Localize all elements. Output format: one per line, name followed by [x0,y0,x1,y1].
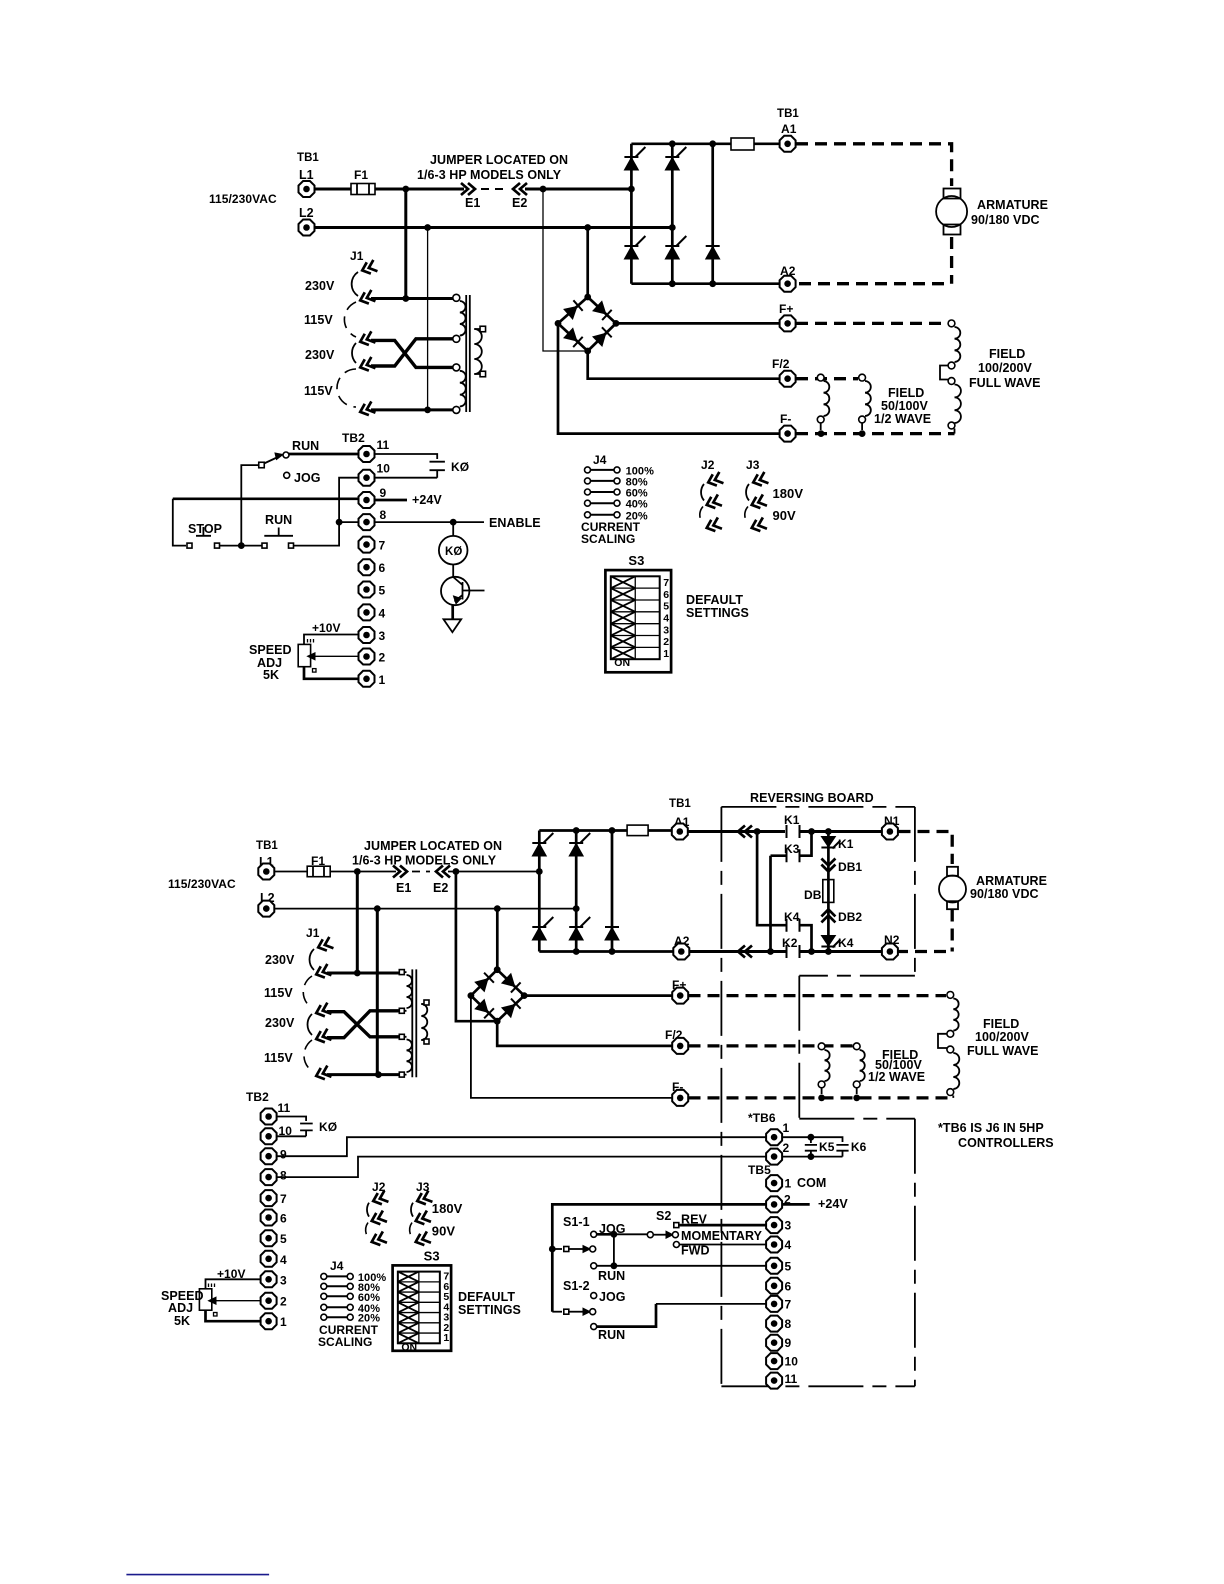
svg-text:K5: K5 [819,1140,835,1154]
terminal TB2-10 [359,470,375,486]
svg-text:S2: S2 [656,1209,671,1223]
terminal A1 [780,136,796,152]
SCR K4 (DB chain) [821,936,840,948]
terminal TB5-1 [766,1175,782,1191]
wire pot to TB2-3 [304,635,358,645]
terminal TB5-11 [766,1373,782,1389]
terminal TB2-5 (bottom) [261,1230,277,1246]
terminal TB2-2 [359,649,375,665]
wire L2 drop to field bridge top (bottom) [496,909,499,970]
transformer T1 core [466,295,470,412]
transformer T1 primary winding lower [460,371,466,407]
wire TB6-1 to contacts [783,1137,843,1142]
svg-text:7: 7 [663,577,669,589]
svg-text:1/6-3 HP MODELS ONLY: 1/6-3 HP MODELS ONLY [417,168,562,182]
svg-text:11: 11 [278,1101,291,1115]
wire pot to TB2-3 (bottom) [206,1279,261,1289]
armature fuse [731,138,754,150]
wire TB6-2 to contacts [783,1156,843,1158]
field diode top-right (bottom) [502,973,521,992]
J1 tap chevron 3 [358,331,375,347]
svg-text:A1: A1 [781,122,797,136]
field 100/200V coil upper [948,320,955,327]
jumper terminal E2 [513,183,527,195]
wire diamond to F/2 (bottom) [497,1021,672,1046]
wire F1 to E1 [375,188,464,191]
transformer secondary winding (bottom) [421,1004,427,1040]
svg-text:7: 7 [379,539,386,553]
wire S1-2 RUN to TB5-7 [597,1304,656,1327]
wire L2 node drop to field bridge top [586,228,589,298]
svg-text:E1: E1 [396,881,411,895]
svg-text:F/2: F/2 [772,357,790,371]
terminal TB2-3 (bottom) [261,1271,277,1287]
terminal TB2-9 [359,492,375,508]
svg-text:6: 6 [280,1212,287,1226]
svg-text:3: 3 [785,1219,792,1233]
wire F/2 to half-wave coils (bottom, dashed) [689,1044,854,1047]
wire tap5 to primary bottom [371,408,453,411]
svg-text:4: 4 [663,612,669,624]
wire selector pole drop [241,465,258,545]
wire left rail [173,499,186,546]
wire K1 node drop to K4 [757,832,786,926]
svg-text:J4: J4 [330,1259,344,1273]
S1-2 pole [552,1311,562,1313]
wire tap3 crossover (bottom) [327,1012,399,1037]
wire armature to A2 (dashed) [796,237,952,284]
terminal TB5-10 [766,1353,782,1369]
wire pot bottom to TB2-1 (bottom) [206,1310,261,1321]
contact K5 [805,1137,817,1156]
transformer primary winding upper (bottom) [407,975,413,1008]
wire JOG node to RUN node [613,1234,615,1266]
svg-text:ON: ON [401,1341,417,1353]
svg-text:2: 2 [783,1141,790,1155]
svg-text:100/200V: 100/200V [975,1030,1030,1044]
svg-text:230V: 230V [305,279,335,293]
field diode top-left (bottom) [475,973,494,992]
svg-text:SPEED: SPEED [249,643,292,657]
SCR top-mid [665,147,686,170]
JOG contact [284,472,290,478]
svg-text:9: 9 [785,1336,792,1350]
svg-text:2: 2 [280,1295,287,1309]
svg-text:2: 2 [379,651,386,665]
J1 tap chevron 230V top [360,260,377,276]
svg-text:K4: K4 [838,936,854,950]
wire L1 drop to transformer [404,189,407,298]
svg-text:FIELD: FIELD [888,386,924,400]
transformer T1 primary terminals [453,294,460,301]
wire diamond to F+ [616,322,779,325]
svg-text:ENABLE: ENABLE [489,516,541,530]
svg-text:115/230VAC: 115/230VAC [168,877,236,891]
svg-text:40%: 40% [626,499,648,511]
contact K0 (bottom) [277,1124,313,1137]
svg-text:1/6-3 HP MODELS ONLY: 1/6-3 HP MODELS ONLY [352,854,497,868]
SCR top-left (bottom) [532,833,553,856]
svg-text:90/180 VDC: 90/180 VDC [970,887,1039,901]
svg-text:90V: 90V [773,508,797,523]
svg-text:7: 7 [785,1297,792,1311]
J1 tap chevron 1 (bottom) [316,937,333,953]
jumper terminal E1 [461,183,475,195]
wire TB2-11 to K0 contact [375,454,437,459]
wire F+ to field coil (dashed) [796,322,947,325]
wire +24V from TB2-9 [375,499,407,502]
svg-text:J2: J2 [701,458,715,472]
J4 jumper 20% [590,514,614,516]
contact K6 [836,1145,848,1157]
svg-text:ADJ: ADJ [168,1301,193,1315]
field 50/100V coil left (bottom) [818,1043,825,1050]
svg-text:KØ: KØ [319,1120,337,1134]
svg-text:+10V: +10V [312,621,341,635]
relay coil K0 [452,522,454,536]
svg-text:230V: 230V [265,953,295,967]
svg-text:E2: E2 [433,881,448,895]
transformer T1 secondary winding [474,329,482,374]
terminal TB2-6 [359,559,375,575]
svg-text:11: 11 [377,438,390,452]
potentiometer SPEED ADJ 5K (bottom) [199,1289,211,1310]
J1 arc 230V [352,272,358,296]
terminal TB5-7 [766,1296,782,1312]
wire tap2 to primary top [371,297,453,300]
svg-text:1: 1 [379,673,386,687]
svg-text:TB1: TB1 [297,152,319,164]
pot wiper wire to TB2-2 [313,655,358,657]
wire F- return (bottom, dashed) [689,1096,954,1099]
wire L2 drop to transformer bottom [427,228,429,410]
wire F/2 to half-wave coils (dashed) [796,377,858,380]
svg-text:230V: 230V [305,348,335,362]
wire L2 to bridge (bottom) [275,908,576,910]
diode DB1 [821,859,835,872]
terminal TB2-9 (bottom) [261,1148,277,1164]
svg-text:F-: F- [780,412,791,426]
terminal TB5-5 [766,1258,782,1274]
jumper terminal E1 (bottom) [393,866,407,878]
svg-text:7: 7 [280,1192,287,1206]
svg-text:S3: S3 [628,553,644,568]
svg-text:50/100V: 50/100V [881,399,929,413]
wire STOP to RUN button [220,545,263,547]
wire tap3 crossover to primary t3 [371,340,453,367]
svg-text:DEFAULT: DEFAULT [686,593,743,607]
svg-text:115/230VAC: 115/230VAC [209,192,277,206]
wire armature to N2 (dashed) [899,910,953,952]
svg-text:1: 1 [280,1315,287,1329]
svg-text:1: 1 [783,1121,790,1135]
svg-text:5: 5 [280,1232,287,1246]
svg-text:CONTROLLERS: CONTROLLERS [958,1136,1054,1150]
jumper wire E1-E2 dashed (bottom) [412,871,430,873]
svg-text:FWD: FWD [681,1244,710,1258]
J4 jumper 80% (bottom) [327,1285,347,1287]
field 100/200V coil upper (bottom) [947,992,954,999]
SCR bottom-left [624,236,645,259]
transformer T1 primary winding upper [460,301,466,336]
diode bottom-right (bottom) [605,927,619,940]
J4 jumper 100% [590,469,614,471]
svg-text:1/2 WAVE: 1/2 WAVE [868,1070,925,1084]
wire L1 drop to transformer (bottom) [356,872,359,974]
field 50/100V coil right (bottom) [853,1043,860,1050]
svg-text:K1: K1 [784,813,800,827]
svg-text:3: 3 [280,1273,287,1287]
diode DB2 [821,909,835,922]
svg-text:115V: 115V [264,986,293,1000]
svg-text:STOP: STOP [188,522,222,536]
transformer primary winding lower (bottom) [407,1040,412,1073]
svg-text:SETTINGS: SETTINGS [458,1303,521,1317]
terminal TB5-8 [766,1316,782,1332]
SCR bottom-mid (bottom) [569,917,590,940]
S1-1 RUN contact [591,1263,597,1269]
svg-text:K6: K6 [851,1140,867,1154]
terminal TB2-10 (bottom) [261,1128,277,1144]
field diode bottom-right (bottom) [502,999,521,1018]
svg-text:+24V: +24V [412,493,442,507]
svg-text:S1-1: S1-1 [563,1215,590,1229]
SCR top-mid (bottom) [569,833,590,856]
wire E2 to bridge (bottom) [448,871,539,873]
wire FWD to TB5-4 [680,1244,767,1246]
terminal TB2-7 [359,537,375,553]
wire E2 drop to field bridge (bottom) [456,872,497,1022]
transistor Q1 [452,565,454,578]
wire TB2-11 to K0 contact (bottom) [277,1117,306,1122]
svg-text:115V: 115V [304,384,333,398]
svg-text:FULL WAVE: FULL WAVE [969,376,1041,390]
svg-text:100/200V: 100/200V [978,361,1033,375]
svg-text:TB2: TB2 [246,1090,269,1104]
svg-text:6: 6 [379,561,386,575]
svg-text:10: 10 [785,1355,799,1369]
J4 jumper 20% (bottom) [327,1316,347,1318]
svg-text:JOG: JOG [294,471,321,485]
wire tap4 crossover (bottom) [327,1011,399,1038]
terminal TB2-6 (bottom) [261,1210,277,1226]
svg-text:5K: 5K [174,1314,190,1328]
svg-text:TB1: TB1 [669,798,691,810]
wire A1 into board [689,830,786,833]
svg-text:4: 4 [379,606,386,620]
field bridge diode bottom-left [564,328,583,347]
wire left rail to TB2-9 [173,497,358,500]
jumper wire E1-E2 (dashed) [481,188,509,190]
J1 tap chevron 5 (bottom) [314,1066,331,1082]
svg-text:*TB6: *TB6 [748,1111,776,1125]
terminal TB5-2 [766,1196,782,1212]
svg-text:J1: J1 [306,926,320,940]
wire TB2-9 to TB6-1 [277,1137,766,1156]
wire F1 to E1 (bottom) [330,871,396,873]
wire tap4 crossover to primary t2 [371,339,453,366]
svg-text:11: 11 [785,1372,798,1386]
svg-text:E1: E1 [465,196,480,210]
potentiometer SPEED ADJ 5K [298,644,310,666]
svg-text:60%: 60% [626,488,648,500]
wire REV to TB5-3 [679,1224,766,1227]
wire RUN button to TB2-10 riser [294,478,359,546]
S1-1 JOG contact [591,1231,597,1237]
field coil tap jog (bottom) [938,1034,947,1048]
wire L1 to fuse F1 [315,188,351,191]
svg-text:9: 9 [280,1148,287,1162]
svg-text:K1: K1 [838,837,854,851]
armature fuse (bottom) [627,825,648,836]
terminal TB2-8 (bottom) [261,1169,277,1185]
J1 tap chevron 5 [358,401,375,417]
svg-text:TB2: TB2 [342,431,365,445]
svg-text:FULL WAVE: FULL WAVE [967,1044,1039,1058]
svg-text:F+: F+ [779,302,793,316]
wire tap5 to primary (bottom) [327,1073,399,1076]
wire K3 drop to N2 rail [769,856,772,952]
J4 jumper 40% [590,502,614,504]
field bridge diode top-right [593,301,612,320]
transformer core (bottom) [412,969,416,1077]
wire S1-1 JOG to S2 [597,1233,614,1236]
terminal TB2-4 [359,604,375,620]
svg-text:RUN: RUN [265,513,292,527]
svg-text:*TB6 IS J6 IN 5HP: *TB6 IS J6 IN 5HP [938,1121,1044,1135]
wire fuse to A1 [754,142,779,145]
svg-text:5: 5 [663,601,669,613]
terminal A1 (bottom) [672,824,688,840]
jumper terminal E2 (bottom) [436,866,450,878]
J4 jumper 100% (bottom) [327,1275,347,1277]
wire E2 node drop to field bridge [543,189,588,351]
terminal TB5-9 [766,1335,782,1351]
wire diamond to F/2 [588,351,779,379]
terminal TB2-2 (bottom) [261,1293,277,1309]
field 50/100V coil left [817,374,824,381]
S2 REV contact [674,1223,679,1228]
svg-text:K2: K2 [782,936,798,950]
transformer primary terminals (bottom) [399,970,404,975]
svg-text:180V: 180V [773,486,804,501]
J1 arc 115V lower (dashed) [337,369,356,407]
terminal TB2-8 [359,514,375,530]
wire transistor to ground [451,605,454,620]
svg-text:KØ: KØ [451,460,469,474]
svg-text:DEFAULT: DEFAULT [458,1290,515,1304]
svg-text:J3: J3 [746,458,760,472]
terminal TB5-6 [766,1278,782,1294]
svg-text:FIELD: FIELD [989,347,1025,361]
svg-text:ON: ON [614,657,630,669]
wire K1 to N1 [800,830,882,833]
svg-text:3: 3 [663,624,669,636]
svg-text:L2: L2 [299,206,314,220]
svg-text:8: 8 [380,508,387,522]
svg-text:6: 6 [785,1279,792,1293]
svg-text:REVERSING BOARD: REVERSING BOARD [750,791,874,805]
pot wiper to TB2-2 (bottom) [214,1300,260,1302]
wire S1-1 RUN to TB5-5 [597,1265,766,1267]
J1 tap chevron 4 [358,357,375,373]
svg-text:MOMENTARY: MOMENTARY [681,1229,763,1243]
armature bridge rails [631,144,787,284]
S1-2 RUN contact [591,1324,597,1330]
svg-text:10: 10 [377,462,391,476]
svg-text:5: 5 [379,584,386,598]
terminal TB2-7 (bottom) [261,1190,277,1206]
svg-text:+24V: +24V [818,1197,848,1211]
svg-text:SCALING: SCALING [318,1335,372,1349]
svg-text:J1: J1 [350,249,364,263]
terminal TB6-1 [766,1129,782,1145]
svg-text:SCALING: SCALING [581,532,635,546]
svg-text:90V: 90V [432,1224,456,1239]
armature bridge rails (bottom) [539,831,673,952]
svg-text:1/2 WAVE: 1/2 WAVE [874,412,931,426]
wire pot bottom to TB2-1 [304,667,358,679]
selector switch pole [259,462,265,468]
svg-text:JOG: JOG [599,1290,626,1304]
svg-text:1: 1 [663,648,669,660]
svg-text:L1: L1 [299,168,314,182]
wire A1 to armature (dashed) [796,144,952,186]
terminal TB2-5 [359,582,375,598]
wire RUN contact to TB2-11 [289,453,358,456]
field bridge diamond (bottom) [471,970,524,1022]
wire TB2-8 to TB6-2 [277,1157,766,1178]
terminal TB5-4 [766,1237,782,1253]
terminal TB5-3 [766,1217,782,1233]
wire F+ to coil (bottom, dashed) [689,994,947,997]
svg-text:ARMATURE: ARMATURE [977,198,1048,212]
svg-text:5: 5 [785,1259,792,1273]
svg-text:3: 3 [379,629,386,643]
ground [444,619,462,632]
svg-text:RUN: RUN [598,1328,625,1342]
terminal TB2-4 (bottom) [261,1251,277,1267]
svg-text:J4: J4 [593,453,607,467]
J1 arc 230V lower [352,343,356,363]
wire diamond to F+ (bottom) [524,994,672,997]
wire ENABLE from TB2-8 [375,521,484,523]
svg-text:E2: E2 [512,196,527,210]
J1 arc 115V (dashed) [344,302,356,337]
diode bottom-right [706,246,720,259]
field 100/200V coil lower [948,378,955,385]
contact K0 (capacitor style) [430,462,445,478]
terminal TB2-3 [359,627,375,643]
terminal TB2-11 [359,446,375,462]
svg-text:RUN: RUN [598,1269,625,1283]
armature motor M (bottom) [947,867,958,876]
wire TB5-2 +24V stub [783,1203,810,1206]
terminal TB2-11 (bottom) [261,1109,277,1125]
svg-text:115V: 115V [264,1051,293,1065]
svg-text:230V: 230V [265,1016,295,1030]
svg-text:DB1: DB1 [838,860,862,874]
field bridge diamond [558,297,616,351]
field 50/100V coil right [859,374,866,381]
svg-text:RUN: RUN [292,439,319,453]
field coil tap jog [940,366,948,380]
field 100/200V coil lower (bottom) [947,1046,954,1053]
svg-text:TB1: TB1 [256,840,278,852]
footer rule [126,1574,269,1576]
wire L1 to F1 (bottom) [275,871,307,873]
terminal TB2-1 (bottom) [261,1313,277,1329]
